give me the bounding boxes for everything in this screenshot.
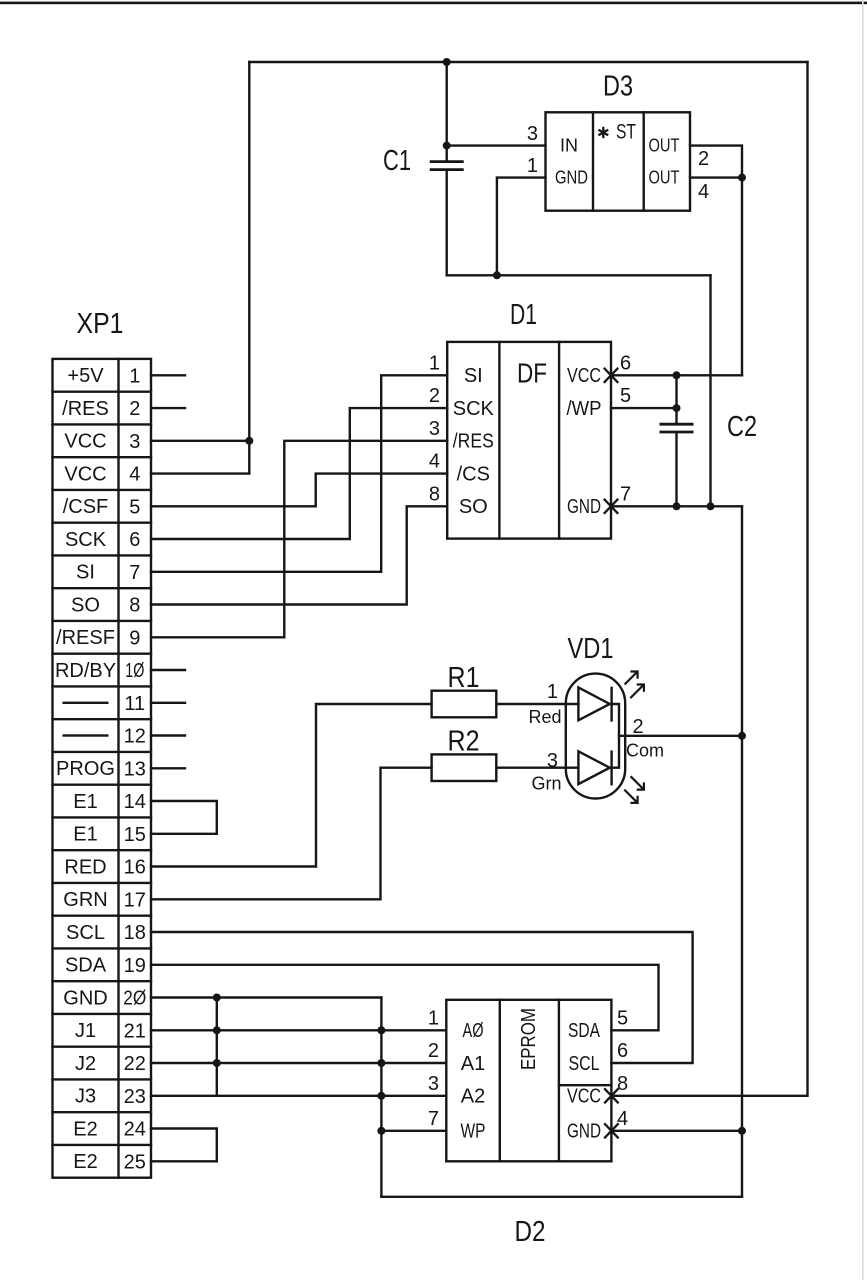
wire top VCC bus [249,61,807,63]
svg-text:2Ø: 2Ø [123,988,146,1010]
svg-text:1: 1 [527,155,538,177]
wire D1 GND pin7 line [611,505,742,507]
svg-text:2: 2 [428,1040,439,1062]
connector XP1 row divider 11/12 [53,718,152,720]
wire C2 node riser [675,375,677,424]
IC D1 box [447,342,611,539]
wire XP1 pin5 to D1 /CS [151,474,447,507]
svg-text:D1: D1 [510,299,537,331]
junction J2 on J bus [213,1059,221,1067]
svg-text:3: 3 [428,1073,439,1095]
svg-text:1: 1 [547,681,558,703]
D2 pin X mark [604,1088,618,1103]
svg-text:PROG: PROG [56,758,115,780]
wire R1 to LED red anode [496,703,578,705]
wire XP1 pin24-25 E2 loop [151,1129,217,1162]
svg-text:J2: J2 [75,1053,96,1075]
wire J bus vertical [216,998,218,1096]
wire XP1 pin20 GND to WP bus [151,996,381,998]
svg-text:GND: GND [63,987,107,1009]
junction WP bus at A2 [377,1092,385,1100]
connector XP1 row divider 6/7 [53,554,152,556]
svg-text:6: 6 [617,1040,628,1062]
svg-text:C1: C1 [383,145,411,177]
svg-text:16: 16 [124,857,146,879]
junction C1 riser / D3 pin3 branch [443,142,451,150]
wire stub XP1 pin 12 [151,734,185,736]
LED green diode triangle [578,751,609,784]
svg-text:2: 2 [633,716,644,738]
capacitor C1 top plate [430,160,464,163]
wire XP1 pin3 VCC to junction [151,440,249,442]
svg-text:EPROM: EPROM [518,1008,540,1070]
svg-text:VCC: VCC [567,365,601,387]
svg-text:19: 19 [124,955,146,977]
svg-text:DF: DF [517,358,547,389]
svg-text:8: 8 [129,595,140,617]
wire XP1 pin6 to D1 SCK [151,408,447,539]
wire stub XP1 pin 1 [151,374,185,376]
svg-text:12: 12 [124,726,146,748]
IC D1 divider right [558,342,560,539]
LED red diode triangle [578,688,609,721]
connector XP1 row divider 12/13 [53,751,152,753]
svg-text:6: 6 [620,352,631,374]
capacitor C2 top plate [660,423,694,426]
svg-text:25: 25 [124,1151,146,1173]
svg-text:A1: A1 [461,1053,485,1075]
wire top bus down to C1 [446,62,448,161]
svg-text:RD/BY: RD/BY [55,660,116,682]
wire D2 WP stub [381,1130,446,1132]
svg-text:23: 23 [124,1086,146,1108]
svg-text:SO: SO [459,496,488,518]
wire XP1 pin19 SDA to D2 pin5 [151,965,659,1031]
D3 asterisk mark [598,127,608,138]
connector XP1 row divider 4/5 [53,489,152,491]
svg-text:SI: SI [76,562,95,584]
connector XP1 row divider 2/3 [53,423,152,425]
wire D2 GND pin4 to GND bus [611,1130,742,1132]
svg-text:J1: J1 [75,1020,96,1042]
LED light arrow red inner [630,685,644,699]
D1 pin X mark [604,368,618,383]
wire gnd rail drop to D1 GND line [709,275,711,506]
connector XP1 row divider 23/24 [53,1111,152,1113]
LED green cathode bar [610,752,612,785]
IC D1 divider left [498,342,500,539]
svg-text:SDA: SDA [65,955,107,977]
IC D3 divider left [592,112,594,210]
svg-text:XP1: XP1 [77,308,124,340]
svg-text:22: 22 [124,1053,146,1075]
wire XP1 pin7 to D1 SI [151,375,447,572]
junction /WP on C2 riser [673,404,681,412]
svg-text:D2: D2 [515,1216,546,1248]
svg-text:A2: A2 [461,1086,485,1108]
connector XP1 row divider 8/9 [53,620,152,622]
junction C2 bottom on GND line [673,502,681,510]
svg-text:SO: SO [71,594,100,616]
junction D3 gnd rail [493,271,501,279]
junction WP bus at A0 [377,1026,385,1034]
wire stub XP1 pin 2 [151,407,185,409]
svg-text:4: 4 [698,181,709,203]
connector XP1 row divider 13/14 [53,784,152,786]
svg-text:Com: Com [626,741,664,761]
connector XP1 row divider 9/10 [53,653,152,655]
LED light arrow green outer [624,790,637,803]
svg-text:GND: GND [555,168,588,188]
svg-text:13: 13 [124,758,146,780]
svg-text:5: 5 [617,1007,628,1029]
svg-text:1: 1 [429,352,440,374]
svg-text:6: 6 [129,529,140,551]
svg-text:2: 2 [698,148,709,170]
svg-text:15: 15 [124,824,146,846]
border frame top line [0,2,867,5]
svg-text:8: 8 [429,483,440,505]
junction XP1 pins 3-4 VCC [245,437,253,445]
wire D3 gnd rail horizontal [447,274,711,276]
svg-text:ST: ST [616,121,636,144]
wire XP1 pin18 SCL to D2 pin6 [151,932,693,1063]
svg-text:2: 2 [429,385,440,407]
wire bottom gnd return [381,1196,742,1198]
IC D2 box [446,1000,611,1162]
resistor R1 [432,691,497,718]
svg-text:/CSF: /CSF [63,496,109,518]
wire XP1 pin8 to D1 SO [151,506,447,604]
junction top bus / C1 branch [443,58,451,66]
connector XP1 row divider 17/18 [53,915,152,917]
wire VCC riser to top bus [248,62,250,441]
svg-text:7: 7 [428,1108,439,1130]
connector XP1 row divider 10/11 [53,685,152,687]
svg-text:OUT: OUT [649,168,680,188]
junction WP bus at A1 [377,1059,385,1067]
wire XP1 pin9 to D1 /RES [151,441,447,638]
wire LED common pin2 out [619,735,742,737]
connector XP1 row divider 15/16 [53,849,152,851]
svg-text:3: 3 [429,418,440,440]
svg-text:1: 1 [428,1007,439,1029]
svg-text:9: 9 [129,627,140,649]
svg-text:SDA: SDA [568,1020,601,1042]
connector XP1 row divider 1/2 [53,391,152,393]
svg-text:R2: R2 [448,726,480,758]
svg-text:7: 7 [620,483,631,505]
svg-text:1Ø: 1Ø [125,660,144,682]
wire D1 VCC pin6 to D3 output drop [611,374,742,376]
svg-text:WP: WP [461,1121,486,1143]
LED VD1 capsule outline [566,674,625,799]
LED light arrow green inner [631,776,644,789]
svg-text:VD1: VD1 [568,633,614,665]
svg-text:1: 1 [129,365,140,387]
svg-text:C2: C2 [727,411,757,443]
wire D1 /WP pin5 to C2 node [611,407,677,409]
wire D3 pin4 OUT [690,176,742,178]
svg-text:/RESF: /RESF [56,627,115,649]
wire right VCC drop to D2 pin8 [611,62,807,1096]
wire D3 pin1 GND down to rail [497,178,546,276]
LED light arrow red outer [625,672,638,685]
svg-text:2: 2 [129,398,140,420]
svg-text:3: 3 [547,750,558,772]
svg-text:E1: E1 [73,824,97,846]
wire R2 to LED green anode [496,767,578,769]
svg-text:GRN: GRN [63,889,107,911]
svg-text:24: 24 [124,1119,146,1141]
svg-text:/WP: /WP [567,398,602,420]
wire C1 bottom to D3 gnd rail [446,170,448,275]
junction J1 on J bus [213,1026,221,1034]
connector XP1 row divider 21/22 [53,1045,152,1047]
svg-text:VCC: VCC [64,431,106,453]
svg-text:IN: IN [560,136,578,156]
svg-text:GND: GND [567,496,601,518]
capacitor C2 bottom plate [660,431,694,434]
wire GND bus down right side [741,506,743,1197]
svg-text:R1: R1 [448,662,480,694]
svg-text:4: 4 [129,464,140,486]
connector XP1 row divider 19/20 [53,980,152,982]
junction D2 GND on GND bus [738,1127,746,1135]
connector XP1 row divider 20/21 [53,1013,152,1015]
junction LED common on GND bus [738,732,746,740]
border frame right line [862,0,864,1280]
svg-text:AØ: AØ [463,1020,484,1042]
resistor R2 [432,754,497,781]
capacitor C1 bottom plate [430,168,464,171]
wire XP1 pin22 J2 to D2 A1 [151,1062,446,1064]
svg-text:3: 3 [129,431,140,453]
svg-text:SCK: SCK [65,529,107,551]
svg-text:5: 5 [129,496,140,518]
wire D3 pin2 OUT [690,146,742,178]
svg-text:D3: D3 [603,71,633,103]
svg-text:E2: E2 [73,1151,97,1173]
svg-text:4: 4 [617,1108,628,1130]
svg-text:GND: GND [567,1121,601,1143]
svg-text:RED: RED [64,856,106,878]
wire C2 bottom to GND line [675,432,677,506]
D1 pin X mark [604,499,618,514]
svg-text:18: 18 [124,922,146,944]
svg-text:4: 4 [429,451,440,473]
wire XP1 pin21 J1 to D2 A0 [151,1029,446,1031]
wire stub XP1 pin 11 [151,702,185,704]
wire stub XP1 pin 10 [151,669,185,671]
wire WP bus vertical [380,998,382,1197]
wire LED common link [612,704,619,768]
IC D2 divider left [499,1000,501,1162]
wire XP1 pin23 J3 to D2 A2 [151,1095,446,1097]
connector XP1 row divider 18/19 [53,947,152,949]
junction J bus on pin20 [213,994,221,1002]
svg-text:/RES: /RES [453,431,494,453]
IC D3 box [546,112,691,210]
wire XP1 pin14-15 E1 loop [151,801,217,834]
connector XP1 row divider 7/8 [53,587,152,589]
svg-text:14: 14 [124,791,146,813]
wire D3 pin3 IN [447,144,546,146]
svg-text:J3: J3 [75,1086,96,1108]
svg-text:5: 5 [620,385,631,407]
svg-text:+5V: +5V [67,365,104,387]
connector XP1 row divider 22/23 [53,1078,152,1080]
svg-text:/CS: /CS [457,463,490,485]
connector XP1 column divider [117,359,119,1178]
svg-text:7: 7 [129,562,140,584]
junction gnd rail drop on GND line [707,502,715,510]
IC D3 divider right [643,112,645,210]
junction D3 outputs [738,174,746,182]
LED red cathode bar [610,688,612,721]
connector XP1 row divider 14/15 [53,816,152,818]
svg-text:VCC: VCC [64,463,106,485]
svg-text:SCL: SCL [66,922,105,944]
D2 pin X mark [604,1123,618,1138]
IC D2 right column divider [559,1084,612,1086]
svg-text:SCK: SCK [453,398,495,420]
connector XP1 row divider 3/4 [53,456,152,458]
svg-text:SCL: SCL [569,1053,600,1075]
svg-text:3: 3 [527,123,538,145]
svg-text:8: 8 [617,1073,628,1095]
junction WP bus at WP [377,1127,385,1135]
connector XP1 row divider 24/25 [53,1144,152,1146]
connector XP1 row divider 16/17 [53,882,152,884]
svg-text:E2: E2 [73,1118,97,1140]
wire XP1 pin17 GRN to R2 [151,768,432,900]
svg-text:17: 17 [124,889,146,911]
junction C2 top on VCC line [673,371,681,379]
XP1 pin 11 name (dash) [63,702,109,704]
svg-text:SI: SI [464,365,483,387]
IC D2 divider right [558,1000,560,1162]
svg-text:E1: E1 [73,791,97,813]
svg-text:OUT: OUT [649,136,680,156]
connector XP1 row divider 5/6 [53,522,152,524]
svg-text:/RES: /RES [62,398,109,420]
svg-text:11: 11 [124,693,145,715]
wire XP1 pin4 VCC up to pin3 junction [151,441,249,474]
svg-text:21: 21 [124,1020,146,1042]
wire stub XP1 pin 13 [151,767,185,769]
svg-text:VCC: VCC [567,1086,601,1108]
connector XP1 outer box [53,359,152,1178]
wire D3 output down to D1 VCC line [741,178,743,376]
svg-text:Red: Red [528,707,561,727]
svg-text:Grn: Grn [531,774,561,794]
XP1 pin 12 name (dash) [63,734,109,736]
wire XP1 pin16 RED to R1 [151,704,432,867]
